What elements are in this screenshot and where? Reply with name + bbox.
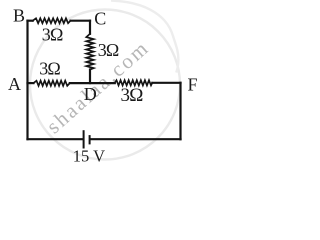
wire right vertical F down [179, 83, 181, 139]
svg-text:C: C [94, 8, 106, 28]
wire top stub B corner to resistor [28, 20, 33, 22]
wire left vertical B-A-bottom [26, 21, 28, 140]
svg-text:F: F [188, 75, 198, 95]
resistor R3 3ohm A-D [34, 81, 70, 86]
wire top resistor to C corner [71, 20, 91, 22]
watermark orbit swoosh [111, 1, 178, 73]
svg-text:3Ω: 3Ω [42, 25, 63, 45]
svg-text:3Ω: 3Ω [121, 85, 144, 106]
battery B1 short plate [89, 135, 91, 144]
battery B1 long plate [83, 130, 85, 148]
wire bottom left segment [28, 138, 83, 140]
watermark circle [30, 10, 180, 160]
resistor R1 3ohm B-C [33, 18, 71, 23]
wire D segment [70, 82, 115, 84]
svg-text:15 V: 15 V [73, 146, 105, 165]
resistor R2 3ohm C-D vertical [86, 34, 93, 70]
svg-text:3Ω: 3Ω [98, 40, 119, 60]
svg-text:D: D [84, 84, 97, 104]
wire A stub [28, 82, 34, 84]
resistor R4 3ohm D-F [115, 80, 153, 85]
svg-text:A: A [8, 74, 21, 94]
svg-text:B: B [13, 5, 25, 25]
wire C corner down to resistor [89, 21, 91, 34]
wire resistor to F corner [152, 82, 180, 84]
wire bottom right segment [90, 138, 180, 140]
wire resistor to D junction [89, 70, 91, 84]
svg-text:3Ω: 3Ω [39, 59, 60, 79]
